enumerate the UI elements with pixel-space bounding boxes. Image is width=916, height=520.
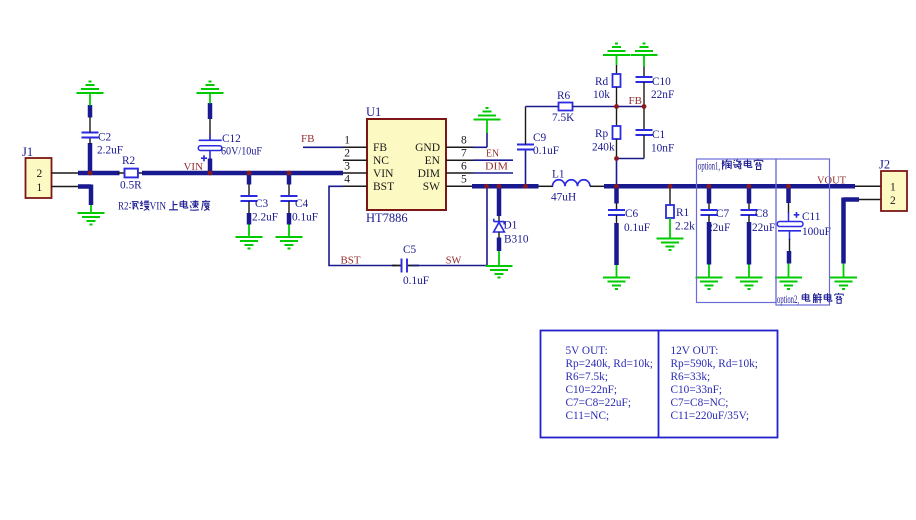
wire ground elbow under J1 — [78, 185, 91, 206]
svg-text:22uF: 22uF — [707, 222, 730, 234]
svg-text:2.2uF: 2.2uF — [252, 212, 278, 224]
svg-text:C9: C9 — [533, 132, 547, 144]
svg-text:R6=33k;: R6=33k; — [671, 371, 711, 383]
wire FB divider to OUT bus — [616, 159, 618, 185]
capacitor C8 — [741, 188, 776, 265]
svg-text:C7: C7 — [716, 208, 730, 220]
svg-text:0.1uF: 0.1uF — [403, 275, 429, 287]
svg-text:1: 1 — [37, 182, 43, 194]
capacitor C9 — [517, 107, 559, 185]
capacitor C3 — [241, 175, 279, 225]
pin 8 — [446, 135, 473, 148]
resistor R6 — [552, 90, 575, 124]
svg-text:C4: C4 — [295, 198, 309, 210]
pin 1 — [343, 135, 367, 148]
svg-text:3: 3 — [344, 161, 350, 173]
svg-text:D1: D1 — [504, 220, 518, 232]
svg-text:C11=220uF/35V;: C11=220uF/35V; — [671, 410, 750, 422]
svg-text:2.2uF: 2.2uF — [97, 145, 123, 157]
node junction FB/C10 — [642, 104, 647, 109]
node junction SW/C5 — [484, 184, 489, 189]
wire C2 stub — [88, 143, 93, 173]
svg-text:60V/10uF: 60V/10uF — [221, 146, 262, 158]
node junction C4/VIN rail — [287, 171, 292, 176]
node junction OUT/C11 — [786, 184, 791, 189]
node junction C12/VIN rail — [208, 171, 213, 176]
resistor R2 — [118, 155, 145, 192]
svg-text:22nF: 22nF — [651, 89, 674, 101]
svg-text:VIN: VIN — [184, 161, 204, 173]
svg-text:SW: SW — [423, 181, 440, 193]
svg-text:C10: C10 — [652, 76, 671, 88]
ground under C3 — [236, 225, 263, 249]
pin 2 — [343, 148, 367, 161]
ground under R1 — [657, 218, 684, 250]
svg-text:GND: GND — [415, 142, 440, 154]
svg-text:EN: EN — [425, 155, 441, 167]
ground under C8 — [736, 265, 763, 290]
svg-text:BST: BST — [341, 255, 361, 267]
wire SW bus to L1 — [538, 185, 553, 187]
svg-text:option2,: option2, — [777, 294, 799, 306]
node DIM stub — [473, 161, 513, 174]
wire pin8 to ground — [473, 133, 487, 148]
svg-text:2: 2 — [890, 195, 896, 207]
ground above C2 — [77, 82, 104, 106]
svg-text:Rp=240k, Rd=10k;: Rp=240k, Rd=10k; — [566, 358, 653, 370]
wire J1 pin2 to VIN rail — [52, 172, 81, 174]
svg-text:8: 8 — [461, 135, 467, 147]
capacitor C7 — [701, 188, 731, 265]
capacitor C11 polarized — [777, 188, 831, 264]
svg-text:7.5K: 7.5K — [552, 112, 575, 124]
svg-text:C6: C6 — [625, 208, 639, 220]
svg-text:C8: C8 — [755, 208, 769, 220]
resistor Rp — [592, 107, 621, 159]
ground under C6 — [603, 265, 630, 289]
wire OUT bus to J2 pin1 — [855, 185, 881, 187]
svg-text:C12: C12 — [222, 133, 241, 145]
svg-text:C5: C5 — [403, 244, 417, 256]
svg-text:Rp=590k, Rd=10k;: Rp=590k, Rd=10k; — [671, 358, 758, 370]
svg-text:HT7886: HT7886 — [366, 211, 408, 225]
svg-text:0.5R: 0.5R — [120, 180, 142, 192]
node junction SW/C9 — [523, 184, 528, 189]
ground under J2 elbow — [830, 264, 857, 290]
connector J1 — [22, 145, 52, 198]
capacitor C12 polarized — [198, 119, 262, 173]
svg-text:Rp: Rp — [595, 128, 609, 140]
svg-text:C2: C2 — [98, 132, 112, 144]
wire BST loop — [329, 186, 396, 265]
svg-text:C10=22nF;: C10=22nF; — [566, 384, 618, 396]
svg-text:DIM: DIM — [418, 168, 440, 180]
wire VIN rail left segment — [78, 171, 120, 176]
svg-text:BST: BST — [373, 181, 394, 193]
svg-text:100uF: 100uF — [802, 226, 831, 238]
capacitor C10 — [636, 67, 675, 107]
wire SW bus — [472, 184, 539, 189]
node junction Rp/C1 — [614, 156, 619, 161]
svg-text:240k: 240k — [592, 142, 615, 154]
ground above pin8 — [474, 108, 501, 133]
ground under D1 — [486, 251, 513, 278]
svg-text:R6=7.5k;: R6=7.5k; — [566, 371, 608, 383]
wire VIN rail main segment — [142, 171, 343, 176]
svg-text:FB: FB — [373, 142, 387, 154]
svg-text:2: 2 — [344, 148, 350, 160]
wire J1 pin1 to ground elbow — [52, 186, 81, 188]
junction dots layer — [88, 104, 791, 189]
svg-text:FB: FB — [629, 95, 643, 107]
svg-text:R1: R1 — [676, 207, 689, 219]
option1 box ceramic caps — [697, 159, 777, 303]
svg-text:FB: FB — [301, 133, 315, 145]
wire C2 top stub — [88, 105, 93, 118]
node junction OUT/R1 — [668, 184, 673, 189]
pin 4 — [343, 174, 367, 187]
svg-text:0.1uF: 0.1uF — [533, 145, 559, 157]
svg-text:10nF: 10nF — [651, 143, 674, 155]
svg-text:C10=33nF;: C10=33nF; — [671, 384, 723, 396]
note text R2 slows VIN power-up (CJK) — [118, 200, 210, 213]
ground under C7 — [696, 265, 723, 290]
svg-text:12V OUT:: 12V OUT: — [671, 345, 719, 357]
svg-text:10k: 10k — [593, 89, 610, 101]
svg-text:C11=NC;: C11=NC; — [566, 410, 610, 422]
pin 5 — [446, 174, 473, 187]
svg-text:22uF: 22uF — [752, 222, 775, 234]
inductor L1 47uH — [551, 169, 590, 204]
svg-text:1: 1 — [890, 182, 896, 194]
connector J2 — [879, 158, 907, 212]
svg-text:EN: EN — [486, 148, 499, 160]
svg-text:5: 5 — [461, 174, 467, 186]
pin 3 — [343, 161, 367, 174]
svg-text:1: 1 — [344, 135, 350, 147]
wire L1 to OUT bus — [590, 185, 605, 187]
node EN stub — [473, 148, 513, 161]
pin 7 — [446, 148, 473, 161]
svg-text:VOUT: VOUT — [817, 175, 846, 187]
svg-text:VIN: VIN — [373, 168, 394, 180]
capacitor C1 — [636, 107, 675, 159]
svg-text:7: 7 — [461, 148, 467, 160]
ground above C10 — [631, 44, 658, 67]
svg-text:option1,: option1, — [698, 161, 720, 173]
svg-text:4: 4 — [344, 174, 350, 186]
svg-text:J1: J1 — [22, 145, 33, 159]
resistor R1 — [666, 188, 695, 233]
node FB label left stub — [301, 133, 343, 147]
ground above C12 — [197, 82, 224, 104]
svg-text:R2: R2 — [118, 201, 129, 213]
capacitor C5 — [392, 244, 429, 287]
svg-text:DIM: DIM — [485, 161, 508, 173]
wire J2 pin2 ground elbow — [844, 198, 860, 264]
wire OUT bus — [604, 184, 855, 189]
node junction C3/VIN rail — [247, 171, 252, 176]
svg-text:C3: C3 — [255, 198, 269, 210]
svg-text:47uH: 47uH — [551, 192, 576, 204]
node junction OUT/C7 — [707, 184, 712, 189]
svg-text:C11: C11 — [802, 211, 820, 223]
pin 6 — [446, 161, 473, 174]
node junction FB/Rd — [614, 104, 619, 109]
wire C9 top to R6 — [526, 106, 559, 108]
capacitor C2 — [82, 118, 124, 157]
svg-text:5V OUT:: 5V OUT: — [566, 345, 608, 357]
value table — [541, 331, 778, 438]
option2 box electrolytic cap — [776, 159, 843, 306]
svg-text:R2: R2 — [122, 155, 136, 167]
ground under C4 — [276, 225, 303, 249]
svg-text:C7=C8=22uF;: C7=C8=22uF; — [566, 397, 631, 409]
node junction SW/D1 — [497, 184, 502, 189]
svg-text:2: 2 — [37, 168, 43, 180]
svg-text:B310: B310 — [504, 234, 529, 246]
svg-text:VIN: VIN — [150, 201, 167, 213]
capacitor C4 — [281, 175, 319, 225]
svg-text:Rd: Rd — [595, 76, 609, 88]
node junction OUT/C8 — [747, 184, 752, 189]
svg-text:2.2k: 2.2k — [675, 221, 695, 233]
svg-text:J2: J2 — [879, 158, 890, 172]
wire R6 to FB node — [573, 106, 645, 108]
svg-text:U1: U1 — [366, 105, 381, 119]
diode D1 B310 — [494, 188, 529, 251]
svg-text:6: 6 — [461, 161, 467, 173]
wire C5 to SW bus — [412, 187, 487, 266]
node junction OUT/C6 — [614, 184, 619, 189]
resistor Rd — [593, 65, 621, 107]
IC U1 HT7886 — [366, 105, 446, 225]
svg-text:R6: R6 — [557, 90, 571, 102]
ground under C11 — [775, 264, 802, 290]
wire J2 pin2 — [858, 199, 881, 201]
svg-text:NC: NC — [373, 155, 389, 167]
capacitor C6 — [608, 188, 650, 265]
ground above Rd — [603, 44, 630, 66]
svg-text:C7=C8=NC;: C7=C8=NC; — [671, 397, 729, 409]
svg-text:0.1uF: 0.1uF — [624, 222, 650, 234]
svg-text:L1: L1 — [552, 169, 565, 181]
wire C1 bottom to Rp bottom — [617, 158, 645, 160]
node junction C2/VIN rail — [88, 171, 93, 176]
ground under J1 — [78, 205, 105, 225]
wire C12 top stub — [208, 103, 213, 119]
svg-text:C1: C1 — [652, 129, 665, 141]
svg-text:0.1uF: 0.1uF — [292, 212, 318, 224]
